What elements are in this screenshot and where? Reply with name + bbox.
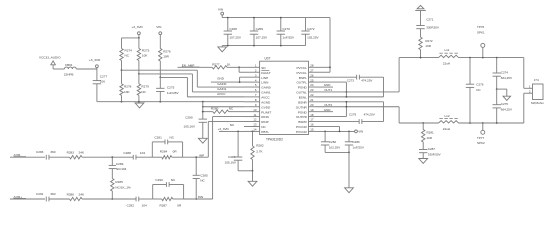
resistor R279 NC	[138, 73, 140, 75]
capacitor C269 107,25V	[253, 18, 255, 31]
svg-text:12: 12	[253, 118, 257, 122]
svg-text:24K: 24K	[79, 192, 85, 196]
svg-text:R279: R279	[141, 85, 149, 89]
svg-text:17: 17	[310, 118, 314, 122]
svg-text:INP: INP	[199, 153, 204, 157]
net INP wire	[183, 156, 209, 158]
capacitor C274 664,25V	[496, 57, 498, 59]
svg-text:C273: C273	[347, 78, 355, 82]
svg-text:C283: C283	[36, 150, 44, 154]
svg-text:BSPL: BSPL	[299, 76, 307, 80]
svg-text:GND: GND	[217, 77, 225, 81]
pin 13 NC	[244, 125, 260, 127]
connector J74 SW,8ohm	[533, 84, 544, 100]
resistor R282 2.7K	[252, 130, 254, 132]
pin 18 OUTPR	[309, 116, 316, 118]
svg-text:27: 27	[310, 68, 314, 72]
svg-text:FAULT: FAULT	[261, 71, 271, 75]
svg-text:10: 10	[253, 108, 257, 112]
svg-text:R275: R275	[142, 49, 150, 53]
svg-text:R274: R274	[125, 49, 133, 53]
test point TP77 SPK2	[482, 122, 484, 124]
inductor L12 22uH	[439, 121, 459, 123]
wire AOR- input	[10, 156, 45, 158]
wire RINP pin12	[208, 121, 244, 123]
pin 1 SD	[244, 66, 260, 68]
svg-text:1uF/25V: 1uF/25V	[282, 36, 295, 40]
svg-text:AGND: AGND	[261, 100, 271, 104]
svg-text:11: 11	[253, 113, 256, 117]
pin 20 OUTNR	[309, 106, 316, 108]
svg-text:C287: C287	[428, 147, 436, 151]
svg-text:360: 360	[50, 192, 55, 196]
wire BSNR line	[316, 101, 384, 103]
capacitor C287 330P,50V	[422, 142, 424, 149]
capacitor C291 360	[45, 197, 47, 202]
pin 27 PVCCL	[309, 71, 316, 73]
svg-text:330P,50V: 330P,50V	[426, 25, 439, 29]
svg-text:2.7K: 2.7K	[256, 150, 263, 154]
resistor R281 10R	[422, 122, 424, 124]
svg-text:22: 22	[310, 93, 314, 97]
svg-text:474,25V: 474,25V	[364, 112, 375, 116]
svg-text:NC/1K_1%: NC/1K_1%	[115, 185, 131, 189]
wire AOR+ input	[10, 198, 45, 200]
svg-text:C284: C284	[228, 155, 236, 159]
net GND stub at LINN	[211, 81, 244, 83]
wire VIN rail down to PVCCL	[329, 18, 331, 73]
net AVCC wire	[160, 76, 187, 78]
svg-text:360: 360	[50, 150, 55, 154]
svg-text:C272: C272	[307, 27, 315, 31]
svg-text:SPK2: SPK2	[477, 141, 485, 145]
wire VCC33_AUDIO to FB01	[53, 68, 64, 70]
svg-text:VIN: VIN	[218, 8, 223, 12]
pin 4 LINN	[244, 81, 260, 83]
svg-text:1uF/25V: 1uF/25V	[353, 145, 364, 149]
svg-text:+3_3VD: +3_3VD	[89, 58, 101, 62]
svg-text:C285: C285	[200, 173, 208, 177]
wire VIN rail	[222, 17, 330, 19]
parallel RC block C290 R287	[152, 185, 154, 200]
svg-text:10R: 10R	[425, 44, 431, 48]
svg-text:C288: C288	[123, 151, 131, 155]
svg-text:NC: NC	[229, 107, 234, 111]
svg-text:C290: C290	[155, 178, 163, 182]
pin 14 PBTL	[244, 130, 260, 132]
svg-text:10R: 10R	[163, 55, 169, 59]
pin 8 AGND	[244, 101, 260, 103]
net INN wire	[184, 198, 213, 200]
pin 10 PLIMIT	[244, 111, 260, 113]
svg-text:PVCCL: PVCCL	[296, 71, 307, 75]
svg-text:SD: SD	[261, 66, 266, 70]
ground below C282 C286	[345, 188, 354, 193]
svg-text:C270: C270	[282, 27, 290, 31]
pin 2 FAULT	[244, 71, 260, 73]
svg-text:10K: 10K	[142, 54, 148, 58]
resistor R287 0R	[153, 198, 162, 200]
svg-text:106: 106	[100, 79, 105, 83]
resistor R285 NC/1K_1%	[111, 179, 114, 192]
svg-text:SPK1: SPK1	[477, 30, 485, 34]
capacitor C275 1uF/25V	[159, 77, 161, 79]
svg-text:23: 23	[310, 88, 314, 92]
svg-text:R285: R285	[115, 180, 123, 184]
wire OUTPL drop	[316, 81, 347, 83]
svg-text:C291: C291	[36, 192, 44, 196]
pin 19 PGND	[309, 111, 316, 113]
svg-text:104: 104	[142, 204, 147, 208]
svg-text:BSPR: BSPR	[298, 120, 307, 124]
wire L12 to SPK2 node	[459, 122, 524, 124]
svg-text:104: 104	[140, 151, 145, 155]
svg-text:24K: 24K	[79, 151, 85, 155]
svg-text:GAIN0: GAIN0	[261, 86, 271, 90]
svg-text:NC: NC	[125, 54, 130, 58]
capacitor C273 474,25V bootstrap	[316, 76, 357, 78]
svg-text:AVCC: AVCC	[217, 92, 226, 96]
svg-text:PVCCL: PVCCL	[296, 66, 307, 70]
svg-text:J74: J74	[534, 78, 539, 82]
svg-text:L11: L11	[445, 48, 450, 52]
ground below C280	[198, 138, 207, 143]
svg-text:R278: R278	[124, 85, 132, 89]
svg-text:BSNR: BSNR	[298, 100, 307, 104]
svg-text:LINP: LINP	[261, 76, 268, 80]
svg-text:OUTNL: OUTNL	[296, 91, 307, 95]
pin 22 BSNL	[309, 96, 316, 98]
op-amp U1 IC U07 TPA3110D2 box	[260, 61, 309, 134]
resistor R284 0R	[152, 156, 162, 158]
svg-text:+3_3VD: +3_3VD	[218, 127, 230, 131]
svg-text:C280: C280	[185, 116, 193, 120]
svg-text:R283: R283	[67, 151, 75, 155]
wire SD to FAULT	[238, 66, 240, 68]
wire R277 to SD pin1	[227, 66, 244, 68]
svg-text:C292: C292	[127, 204, 135, 208]
svg-text:TP76: TP76	[477, 25, 485, 29]
svg-text:107,25V: 107,25V	[229, 36, 241, 40]
capacitor C289 NC/104 shunt	[111, 157, 113, 165]
svg-text:R286: R286	[67, 192, 75, 196]
pin 6 GAIN1	[244, 91, 260, 93]
supply VIN circle bottom	[355, 130, 358, 133]
wire OUT1 to filter	[398, 58, 400, 92]
svg-text:PVCCR: PVCCR	[296, 125, 308, 129]
svg-text:330P,50V: 330P,50V	[428, 153, 441, 157]
svg-text:C275: C275	[167, 86, 175, 90]
resistor R275 10K	[138, 38, 140, 49]
wire OUTPR rise	[316, 116, 347, 118]
wire RINN pin11	[213, 116, 244, 118]
svg-text:15: 15	[310, 128, 314, 132]
svg-text:AVCC: AVCC	[261, 95, 270, 99]
svg-text:105,16V: 105,16V	[224, 161, 236, 165]
svg-text:NC: NC	[170, 136, 175, 140]
resistor R283 24K	[70, 156, 83, 159]
resistor R274 NC	[121, 38, 123, 49]
net GAIN0 wire	[122, 69, 198, 71]
pin 5 GAIN0	[244, 86, 260, 88]
pin 23 OUTNL	[309, 91, 316, 93]
resistor R286 24K	[70, 197, 83, 200]
capacitor C268 107,25V	[227, 18, 229, 31]
inductor L11 22uH	[439, 55, 459, 57]
wire L11 to SPK1 node	[459, 57, 524, 59]
svg-text:664,25V: 664,25V	[501, 108, 512, 112]
capacitor C284 105,16V	[237, 130, 239, 132]
wire +3_3VD to R274	[122, 37, 139, 39]
svg-text:RINP: RINP	[261, 120, 268, 124]
svg-text:RINN: RINN	[261, 115, 269, 119]
capacitor C288 104	[132, 155, 134, 160]
pin 15 PVCCR	[309, 130, 316, 132]
svg-text:102,25V: 102,25V	[329, 145, 340, 149]
wire bootstrap right edge upper	[383, 77, 385, 97]
svg-text:20: 20	[310, 103, 314, 107]
svg-text:28: 28	[310, 64, 314, 68]
svg-text:474,25V: 474,25V	[361, 78, 372, 82]
ferrite bead FB01	[64, 67, 76, 69]
svg-text:GAIN0: GAIN0	[217, 82, 227, 86]
svg-text:VCC33_AUDIO: VCC33_AUDIO	[39, 56, 61, 60]
capacitor C282 102,25V	[324, 130, 326, 132]
wire SPK2 to J74 pin2	[523, 93, 525, 123]
pin 11 RINN	[244, 116, 260, 118]
svg-text:NC: NC	[141, 90, 146, 94]
svg-text:664,25V: 664,25V	[501, 76, 512, 80]
svg-text:21: 21	[310, 98, 314, 102]
svg-text:PLIMIT: PLIMIT	[261, 110, 271, 114]
svg-text:R287: R287	[160, 204, 168, 208]
svg-text:18: 18	[310, 113, 314, 117]
wire R286 to C292	[82, 198, 136, 200]
svg-text:22HFB: 22HFB	[64, 73, 74, 77]
svg-text:NC: NC	[200, 178, 205, 182]
pin 16 PVCCR	[309, 125, 316, 127]
svg-text:C274: C274	[501, 70, 509, 74]
capacitor C270 1uF/25V	[280, 18, 282, 31]
svg-text:C276: C276	[476, 83, 484, 87]
capacitor C272 102,25V	[305, 18, 307, 31]
svg-text:R272: R272	[425, 39, 433, 43]
resistor R277 1K	[178, 66, 213, 68]
svg-text:U07: U07	[265, 56, 271, 60]
svg-text:R281: R281	[427, 131, 435, 135]
capacitor C285 NC shunt	[195, 157, 197, 175]
svg-text:BSNL: BSNL	[299, 95, 307, 99]
svg-text:SW,8ohm: SW,8ohm	[531, 101, 545, 105]
svg-text:OUTNR: OUTNR	[296, 105, 308, 109]
svg-text:PGND: PGND	[298, 86, 308, 90]
capacitor C292 104	[135, 197, 137, 202]
svg-text:1uF/25V: 1uF/25V	[167, 91, 180, 95]
ground at VIN rail	[221, 17, 223, 19]
svg-text:19: 19	[310, 108, 314, 112]
wire GVDD pin9	[203, 106, 244, 108]
wire bootstrap right edge lower	[383, 102, 385, 122]
pin 7 AVCC	[244, 96, 260, 98]
pin 24 PGND	[309, 86, 316, 88]
svg-text:R284: R284	[160, 150, 168, 154]
ground flipped top right	[417, 5, 424, 8]
svg-text:TPA3110D2: TPA3110D2	[266, 137, 283, 141]
svg-text:13: 13	[253, 123, 257, 127]
svg-text:C277: C277	[100, 74, 108, 78]
svg-text:C271: C271	[426, 17, 434, 21]
wire PVCCR pins join	[316, 125, 340, 127]
wire SPK1 to J74 pin1	[523, 58, 525, 89]
capacitor C279 474,25V bootstrap	[316, 121, 360, 123]
svg-text:FB01: FB01	[65, 63, 73, 67]
svg-text:24: 24	[310, 83, 314, 87]
svg-text:NC: NC	[261, 125, 266, 129]
svg-text:R280: R280	[211, 107, 219, 111]
svg-text:PBTL: PBTL	[261, 130, 269, 134]
svg-text:OUTPR: OUTPR	[296, 115, 308, 119]
capacitor C277 106	[96, 69, 98, 81]
svg-text:102,25V: 102,25V	[307, 36, 319, 40]
svg-text:26: 26	[310, 73, 314, 77]
svg-text:C286: C286	[353, 140, 361, 144]
svg-text:107,25V: 107,25V	[256, 36, 268, 40]
svg-text:PVCCR: PVCCR	[296, 130, 308, 134]
svg-text:VIN: VIN	[358, 130, 363, 134]
svg-text:C289: C289	[116, 162, 124, 166]
svg-text:C268: C268	[229, 27, 237, 31]
svg-text:INN: INN	[198, 195, 203, 199]
pin 25 OUTPL	[309, 81, 316, 83]
svg-text:PGND: PGND	[298, 110, 308, 114]
wire C282 C286 gnd join	[325, 151, 349, 153]
svg-text:25: 25	[310, 78, 314, 82]
svg-text:R277: R277	[212, 62, 220, 66]
svg-text:C282: C282	[329, 140, 337, 144]
svg-text:R276: R276	[163, 50, 171, 54]
capacitor C275b 664,25V	[496, 89, 498, 105]
wire C284 R282 join	[238, 170, 252, 172]
svg-text:C269: C269	[256, 27, 264, 31]
svg-text:L12: L12	[445, 114, 450, 118]
svg-text:C275: C275	[501, 102, 509, 106]
capacitor C271 330P,50V	[420, 11, 422, 26]
svg-text:22uH: 22uH	[443, 61, 450, 65]
wire AGND rail	[97, 101, 244, 103]
svg-text:NC: NC	[230, 123, 235, 127]
pin 12 RINP	[244, 121, 260, 123]
net GAIN1 wire	[139, 73, 193, 75]
svg-text:GAIN1: GAIN1	[261, 91, 271, 95]
svg-text:C279: C279	[349, 112, 357, 116]
pin 26 BSPL	[309, 76, 316, 78]
ground at AGND rail	[135, 103, 144, 108]
power arrow VCC33_AUDIO	[51, 61, 56, 65]
ground between C274 C275	[496, 88, 498, 90]
parallel RC block C281 R284	[151, 142, 153, 157]
svg-text:VIN: VIN	[156, 25, 161, 29]
svg-text:10R: 10R	[427, 136, 433, 140]
capacitor C276 NC	[469, 57, 471, 59]
svg-text:10K: 10K	[124, 90, 130, 94]
svg-text:NC: NC	[171, 178, 176, 182]
svg-text:GVDD: GVDD	[261, 105, 271, 109]
svg-text:R282: R282	[256, 144, 264, 148]
svg-text:16: 16	[310, 123, 314, 127]
resistor R278 10K	[121, 69, 123, 71]
resistor R272 10R	[419, 37, 422, 50]
svg-text:TP77: TP77	[477, 136, 485, 140]
pin 3 LINP	[244, 76, 260, 78]
svg-text:C281: C281	[154, 136, 162, 140]
wire BSNL line	[316, 96, 384, 98]
wire PVCCL pins to VIN rail	[316, 66, 331, 68]
capacitor C286 1uF/25V	[348, 130, 350, 132]
svg-text:LINN: LINN	[261, 81, 268, 85]
svg-text:105,16V: 105,16V	[184, 125, 196, 129]
svg-text:22uH: 22uH	[443, 127, 450, 131]
ground below C287	[419, 159, 428, 164]
ground below R282	[248, 181, 257, 186]
wire LINP to GND	[240, 76, 244, 78]
test point TP76 SPK1	[482, 57, 484, 59]
svg-text:14: 14	[253, 128, 257, 132]
wire R283 to C288	[82, 156, 133, 158]
pin 9 GVDD	[244, 106, 260, 108]
resistor R276 10R	[159, 49, 162, 62]
pin 28 PVCCL	[309, 66, 316, 68]
wire OUT2 to filter	[398, 107, 400, 123]
svg-text:GAIN1: GAIN1	[217, 87, 227, 91]
pin 17 BSPR	[309, 121, 316, 123]
svg-text:OUTPL: OUTPL	[296, 81, 307, 85]
capacitor C280 105,16V	[202, 102, 204, 119]
wire FB01 to +3_3VD node	[76, 68, 97, 70]
svg-text:+3_3VD: +3_3VD	[132, 25, 144, 29]
resistor R280 NC	[203, 111, 213, 113]
capacitor C283 360	[45, 155, 47, 160]
wire VIN gnd rail	[222, 45, 305, 47]
pin 21 BSNR	[309, 101, 316, 103]
svg-text:NC/104: NC/104	[116, 167, 127, 171]
